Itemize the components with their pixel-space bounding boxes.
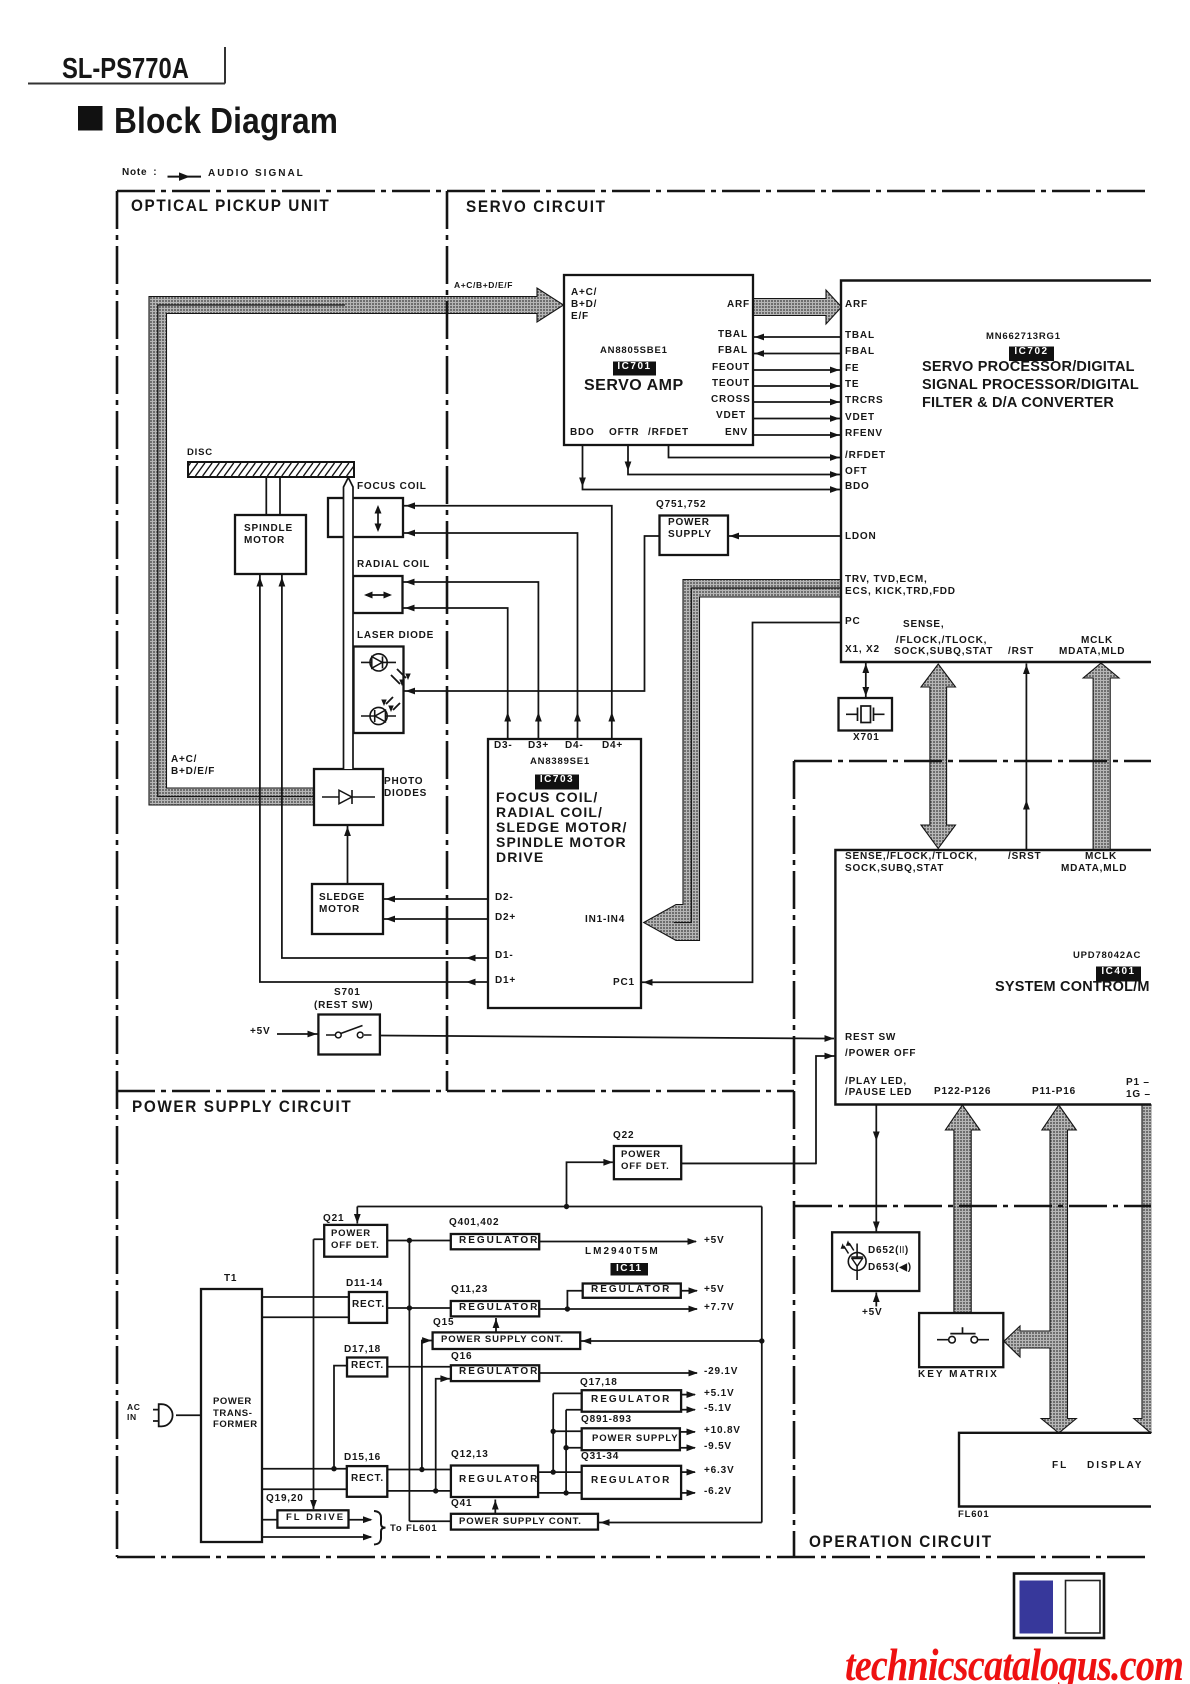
wire D15,16 out lower to Q12,13 [387, 1490, 451, 1492]
legend white square [1066, 1581, 1101, 1634]
key matrix block [919, 1313, 1003, 1367]
wire FBAL [753, 353, 841, 355]
photo diode symbol inside photo diodes block [322, 796, 375, 798]
operation circuit border top [794, 760, 1151, 763]
regulator Q401,402 block [451, 1234, 539, 1249]
node D11-14 output tap [407, 1305, 412, 1310]
wire FL drive output to FL601 [349, 1519, 372, 1521]
node T1 winding tap to D17,18 [331, 1466, 336, 1471]
wire /RST /SRST [1025, 664, 1027, 851]
power supply circuit border top [117, 1090, 794, 1093]
wire /POWER OFF [682, 1056, 835, 1163]
op-amp U-IC701 servo amp block [564, 275, 753, 445]
wire A+C/B+D/E/F photodiode-to-servo-amp grey signal band [149, 288, 564, 805]
wire +5V to LED block [875, 1293, 877, 1307]
wire Q22 to /POWER OFF line [681, 1162, 816, 1164]
Block Diagram bullet square [78, 106, 103, 131]
wire Q17,18 +5.1V output [681, 1394, 695, 1396]
node Q21 output tee [407, 1238, 412, 1243]
IC702 reference chip tag [1009, 347, 1054, 362]
power supply cont Q41 block [451, 1514, 598, 1530]
legend box [1014, 1574, 1104, 1639]
crystal X701 block [839, 698, 893, 731]
IC703 reference chip tag [535, 775, 579, 790]
focus coil motion arrow [377, 507, 379, 530]
disc platter (hatched) [188, 462, 354, 477]
node Q12,13 lower rail tap [563, 1490, 568, 1495]
wire Q31-34 +6.3V output [681, 1471, 695, 1473]
wire FEOUT/FE [753, 369, 841, 371]
switch S701 contacts [326, 1034, 372, 1036]
FL display FL601 block (open right edge) [959, 1433, 1151, 1507]
wire Q12,13 upper out to Q31-34 [538, 1471, 582, 1473]
power supply cont Q15 block [433, 1332, 581, 1349]
wire Q891-893 -9.5V output [680, 1447, 695, 1449]
radial coil block [353, 576, 403, 613]
sledge motor block [312, 884, 383, 934]
regulator IC11 LM2940T5M block [583, 1284, 681, 1298]
wire TRV,TVD,ECM,ECS,KICK,TRD,FDD IC702-to-IC703 grey signal band [644, 580, 841, 941]
wire Q11,23 +7.7V output [539, 1308, 697, 1310]
regulator Q12,13 block [451, 1466, 538, 1498]
wire +5V into S701 [277, 1033, 318, 1035]
wire Q31-34 -6.2V output [681, 1492, 695, 1494]
node power-off rail to Q15 [759, 1338, 764, 1343]
regulator Q16 block [451, 1365, 539, 1381]
optical pickup / servo circuit divider [446, 191, 449, 1091]
wire D4+ to focus coil upper [404, 506, 612, 739]
spindle motor block [235, 515, 306, 574]
wire OFTR/OFT [628, 445, 841, 475]
wire P1-/1G- system-control-to-FL-display grey down arrow (cropped at page edge) [1134, 1105, 1168, 1433]
laser diode block [354, 647, 404, 734]
wire TBAL [753, 336, 841, 338]
wire D4- to focus coil lower [404, 533, 578, 739]
wire D2- to sledge motor [384, 898, 488, 900]
legend blue square [1020, 1581, 1054, 1634]
regulator Q31-34 block [582, 1466, 681, 1499]
LED D652/D653 block [832, 1232, 919, 1291]
wire CROSS/TRCRS [753, 401, 841, 403]
wire T1 to D15,16 lower [262, 1488, 347, 1490]
wire LDON [728, 535, 841, 537]
wire D15,16 out upper to Q12,13 [387, 1469, 451, 1471]
node Q11,23 output tap to IC11 [565, 1306, 570, 1311]
wire IC11 +5V output [681, 1290, 697, 1292]
regulator Q17,18 block [582, 1390, 681, 1412]
wire Q11,23 to IC11 regulator [567, 1291, 582, 1309]
wire D3+ to radial coil upper [404, 582, 539, 739]
wire Q16 regulator cont input [436, 1379, 450, 1491]
LED emission arrows [844, 1243, 854, 1254]
wire sledge motor to photo diodes [347, 826, 349, 884]
crystal X701 symbol [846, 708, 885, 722]
power off detector Q21 block [324, 1225, 387, 1257]
wire SENSE,/FLOCK,/TLOCK,SOCK,SUBQ,STAT IC702-system-control grey double arrow [921, 664, 956, 849]
wire Q22 branch [567, 1162, 613, 1206]
wire P11-P16 system-control/key-matrix/FL-display grey band [1004, 1105, 1076, 1433]
radial coil motion arrow [366, 594, 390, 596]
wire Q16 -29.1V output [539, 1372, 697, 1374]
outer border bottom [117, 1556, 1146, 1559]
node power-off rail / Q22 branch [564, 1204, 569, 1209]
FL drive Q19,20 block [277, 1510, 348, 1527]
wire T1 to D15,16 upper [262, 1468, 347, 1470]
rectifier D17,18 block [347, 1358, 387, 1377]
laser diode LD symbol [361, 661, 396, 663]
wire laser power from Q751,752 [404, 536, 660, 691]
wire Q15 to Q11,23 regulator [495, 1318, 497, 1332]
brace to FL601 [374, 1511, 386, 1545]
node Q891 upper input tap [551, 1429, 556, 1434]
IC702 servo processor block (open right edge) [841, 281, 1151, 663]
wire Q15 power supply cont input [422, 1341, 432, 1470]
power supply Q751,752 block [660, 516, 729, 556]
outer border left [116, 191, 119, 1557]
wire Q17,18 -5.1V output [681, 1409, 695, 1411]
photo diodes block [314, 769, 383, 825]
node D15,16 lower tap to Q16 [433, 1488, 438, 1493]
wire /RFDET [669, 445, 842, 458]
laser beam shaft from disc to photo diodes [344, 484, 354, 769]
wire PC/PC1 [642, 623, 842, 983]
node Q891 lower input tap [563, 1445, 568, 1450]
wire D11-14 out to Q11,23 regulator [387, 1307, 451, 1309]
rectifier D15,16 block [347, 1466, 388, 1497]
wire ARF servo-amp-to-IC702 grey signal band [753, 290, 842, 324]
wire D1+ to spindle motor [260, 575, 488, 982]
wire Q21 to FL drive [314, 1239, 325, 1509]
wire REST SW from S701 [380, 1036, 834, 1039]
laser diode emission photon arrows [391, 669, 406, 684]
wire VDET [753, 418, 841, 420]
IC703 focus/radial/sledge/spindle drive block [488, 739, 641, 1008]
key matrix push switch symbol [937, 1327, 989, 1339]
wire Q12,13 lower out to Q31-34 [538, 1492, 582, 1494]
power off detector Q22 block [614, 1146, 681, 1179]
wire T1 to D11-14 upper [262, 1296, 349, 1298]
wire AC plug to transformer [176, 1414, 201, 1416]
wire T1 to D11-14 lower [262, 1316, 349, 1318]
wire D17,18 out to Q16 regulator [387, 1366, 451, 1368]
regulator Q11,23 block [451, 1301, 539, 1316]
wire D2+ to sledge motor [384, 918, 488, 920]
AC plug symbol [153, 1410, 159, 1421]
wire BDO [583, 445, 842, 490]
IC401 system control block (open right edge) [835, 850, 1151, 1105]
rectifier D11-14 block [349, 1292, 387, 1323]
servo / operation circuit divider [794, 1205, 1151, 1208]
wire tap to D17,18 rectifier [334, 1366, 347, 1469]
monitor photodiode symbol [361, 715, 396, 717]
wire T1 heater line to FL601 [262, 1536, 371, 1538]
LED D652/D653 symbol [856, 1244, 858, 1281]
node Q12,13 upper rail tap [551, 1469, 556, 1474]
wire D1- to spindle motor [282, 575, 488, 958]
wire Q891-893 +10.8V output [680, 1431, 695, 1433]
node Q12,13 upper rail to Q17,18/Q891 [553, 1393, 582, 1472]
optical pickup unit / servo circuit outer border top [117, 190, 1151, 193]
monitor photodiode incoming photon arrows [386, 697, 400, 710]
SL-PS770A title tab border [28, 47, 225, 84]
wire MCLK,MDATA,MLD system-control-to-IC702 grey up arrow [1083, 663, 1119, 850]
note audio signal arrow [168, 176, 202, 178]
wire /PLAY LED,/PAUSE LED [875, 1105, 877, 1233]
switch S701 rest switch block [318, 1015, 380, 1055]
node Q12,13 lower rail to Q17,18/Q891 [566, 1410, 582, 1493]
wire X1,X2 to crystal X701 [865, 662, 867, 698]
power supply Q891-893 block [582, 1428, 680, 1450]
wire T1 to FL drive [262, 1519, 277, 1521]
wire D3- to radial coil lower [404, 608, 508, 739]
wire Q401,402 +5V output [539, 1241, 696, 1243]
wire Q21 out to Q401,402 regulator [387, 1240, 451, 1242]
wire Q41 cont input from power-off rail [599, 1207, 762, 1523]
page crop white margin right [1152, 150, 1190, 1570]
IC701 reference chip tag [613, 362, 656, 376]
IC11 reference chip tag [611, 1263, 649, 1276]
wire TEOUT/TE [753, 385, 841, 387]
focus coil block [328, 498, 403, 537]
operation circuit border left [793, 761, 796, 1557]
wire Q15 power supply cont from power-off rail [580, 1340, 762, 1342]
wire spindle motor to disc [266, 477, 280, 515]
node D15,16 upper tap to Q15 [419, 1467, 424, 1472]
IC401 reference chip tag [1096, 967, 1141, 982]
wire P122-P126 key-matrix-to-system-control grey up arrow [945, 1105, 980, 1313]
node Q21 output to Q41 vertical [409, 1241, 451, 1522]
wire Q41 to Q12,13 regulator [494, 1500, 496, 1514]
wire power-off detect rail Q21/Q22 [357, 1207, 762, 1224]
transformer T1 block [201, 1289, 262, 1542]
wire ENV/RFENV [753, 434, 841, 436]
